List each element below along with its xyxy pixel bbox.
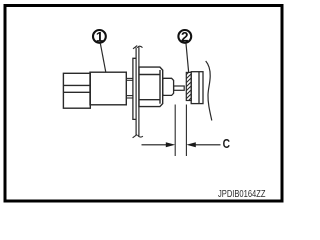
svg-text:2: 2 [181,29,189,44]
pin stubs between body and flange [127,78,134,98]
leader line 1 [100,43,106,72]
sensor connector housing [63,73,90,108]
break wave line [206,61,212,121]
svg-text:JPDIB0164ZZ: JPDIB0164ZZ [218,189,266,200]
plate break marks top [133,46,143,49]
dimension line right with arrow [186,142,220,147]
hex body of sensor [139,67,163,107]
sensor tip rod [174,86,185,90]
hatched signal plate (2) [183,66,195,106]
leader line 2 [186,44,189,73]
border frame [5,6,282,202]
threaded boss [163,78,174,95]
extension line right [185,105,187,157]
callout circle 1 [93,29,106,44]
flange pad [133,58,137,119]
extension line left [174,105,176,157]
plate break marks bottom [133,135,143,138]
sensor body U [90,72,126,105]
svg-text:C: C [223,137,230,151]
svg-text:1: 1 [96,29,104,44]
mounting plate (bracket) [136,47,139,136]
block plate [191,72,203,104]
dimension line left with arrow [142,142,176,147]
callout circle 2 [178,29,191,44]
